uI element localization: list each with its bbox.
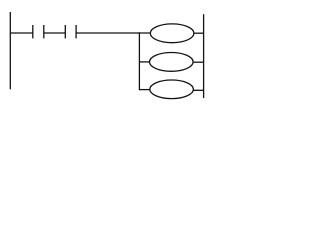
coil Y1 (150, 24, 194, 43)
contact X2 left bar (64, 25, 66, 38)
wire branch-to-coil2 (139, 61, 149, 63)
coil Y3 (150, 80, 194, 99)
branch vertical wire (138, 32, 140, 90)
coil Y2 (150, 53, 194, 72)
contact X1 left bar (32, 25, 34, 38)
wire contact2-to-coil1 (76, 32, 150, 34)
wire branch-to-coil3 (139, 89, 150, 91)
wire coil3-to-rail (193, 89, 203, 91)
wire coil2-to-rail (193, 61, 204, 63)
left power rail (9, 12, 11, 89)
wire contact1-to-contact2 (44, 32, 66, 34)
right power rail (203, 14, 205, 98)
contact X1 right bar (43, 25, 45, 38)
wire coil1-to-rail (194, 32, 204, 34)
wire rail-to-contact1 (10, 32, 32, 34)
contact X2 right bar (75, 25, 77, 38)
